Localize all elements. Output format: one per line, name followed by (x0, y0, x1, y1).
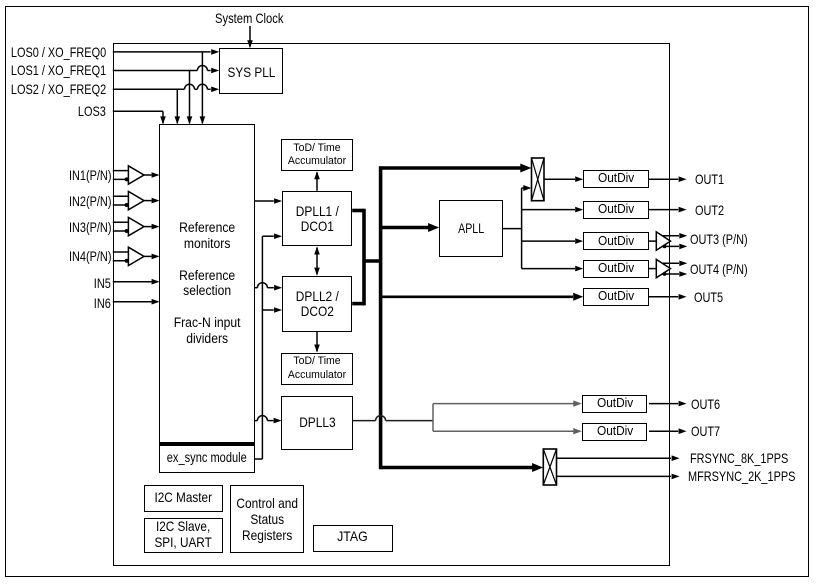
wire LOS3 into reference monitors (113, 111, 166, 124)
label OUT2 (695, 202, 724, 218)
wire LOS0 to SYS PLL (113, 49, 219, 55)
label IN6 (94, 295, 111, 311)
wire LOS1 branch down to reference monitors (187, 71, 193, 125)
label IN1(P/N) (69, 167, 111, 183)
block I2C Master (144, 485, 224, 512)
block SYS PLL (219, 48, 283, 94)
input buffer IN2 with P/N stubs (113, 191, 160, 209)
thick wire bus to frame-sync mux 2 (381, 463, 543, 472)
block ToD/Time Accumulator 2 (281, 353, 353, 385)
thick wire bus to APLL (381, 223, 440, 232)
label OUT1 (695, 171, 724, 187)
wire LOS2 to SYS PLL (hops LOS0/LOS1 branches) (113, 84, 219, 92)
label IN3(P/N) (69, 219, 111, 235)
block APLL (439, 200, 503, 257)
wire bus to OutDiv5 (381, 293, 584, 301)
output mux 1 (crossbar) (532, 158, 545, 201)
label MFRSYNC_2K_1PPS (688, 468, 795, 484)
output buffer OUT4 (P/N) (649, 259, 688, 277)
thick wire bus to output mux 1 (381, 164, 532, 173)
block Control and Status Registers (230, 485, 304, 554)
wire OutDiv5 to OUT5 (649, 294, 687, 300)
wire mux1 to OutDiv1 (544, 176, 583, 182)
block OutDiv5 (583, 288, 648, 306)
wire System Clock input arrow (247, 26, 253, 48)
label OUT6 (691, 396, 720, 412)
wire IN6 into reference selection (113, 299, 160, 305)
label OUT3 (P/N) (690, 231, 748, 247)
block DPLL2/DCO2 (282, 276, 352, 332)
block OutDiv6 (582, 395, 647, 413)
block OutDiv3 (583, 232, 648, 250)
block ToD/Time Accumulator 1 (281, 139, 352, 171)
block I2C Slave/SPI/UART (144, 518, 224, 554)
label IN5 (94, 275, 111, 291)
wire LOS2 branch down to reference monitors (175, 89, 181, 124)
wire splitter to OutDiv6/OutDiv7 (grey) (433, 400, 582, 434)
block DPLL3 (281, 396, 352, 451)
thick bus DPLL1/DPLL2 outputs (352, 166, 380, 469)
label LOS1/XO_FREQ1 (11, 62, 106, 78)
wire DPLL1 - DPLL2 bidirectional (314, 247, 320, 276)
wire reference box to DPLL3 input (hops feedback vertical) (255, 416, 282, 424)
wire mux2 to MFRSYNC_2K_1PPS (557, 474, 680, 480)
block JTAG (313, 525, 393, 553)
block OutDiv2 (583, 201, 648, 219)
wire OutDiv1 to OUT1 (649, 176, 687, 182)
block reference monitors / selection / frac-N dividers (159, 124, 254, 442)
wire OutDiv2 to OUT2 (649, 207, 687, 213)
wire DPLL1 to ToD/Time Accumulator 1 (314, 171, 320, 190)
label FRSYNC_8K_1PPS (690, 450, 788, 466)
wire OutDiv6 to OUT6 (649, 401, 687, 407)
label LOS2/XO_FREQ2 (11, 81, 106, 97)
wire OutDiv7 to OUT7 (649, 428, 687, 434)
block ex_sync module (159, 443, 254, 473)
block OutDiv1 (583, 170, 648, 188)
wire ex_sync module feedback vertical to DPLL1/DPLL2 (255, 233, 283, 459)
label LOS0/XO_FREQ0 (11, 44, 106, 60)
chip boundary box (113, 43, 670, 566)
output buffer OUT3 (P/N) (649, 232, 688, 250)
wire DPLL2 to ToD/Time Accumulator 2 (314, 332, 320, 353)
frame-sync mux 2 (crossbar) (543, 449, 556, 485)
wire DPLL3 output (hops thick bus) (353, 416, 433, 421)
label System Clock (215, 10, 283, 26)
label IN4(P/N) (69, 248, 111, 264)
wire APLL output to output-divider column (503, 185, 583, 271)
label OUT5 (694, 289, 723, 305)
label LOS3 (78, 103, 106, 119)
label IN2(P/N) (69, 193, 111, 209)
wire reference box to DPLL2 input (hops feedback vertical) (255, 283, 283, 291)
wire LOS0 branch down to reference monitors (200, 52, 206, 125)
wire IN5 into reference selection (113, 279, 160, 285)
label OUT7 (691, 423, 720, 439)
block DPLL1/DCO1 (282, 191, 352, 247)
block OutDiv4 (583, 260, 648, 278)
wire mux2 to FRSYNC_8K_1PPS (557, 455, 680, 461)
wire LOS1 to SYS PLL (hops LOS0 branch) (113, 66, 219, 74)
block OutDiv7 (582, 423, 647, 441)
label OUT4 (P/N) (690, 261, 748, 277)
input buffer IN1 with P/N stubs (113, 166, 160, 184)
wire reference box to DPLL1 input 1 (255, 198, 283, 204)
input buffer IN3 with P/N stubs (113, 217, 160, 235)
input buffer IN4 with P/N stubs (113, 247, 160, 265)
